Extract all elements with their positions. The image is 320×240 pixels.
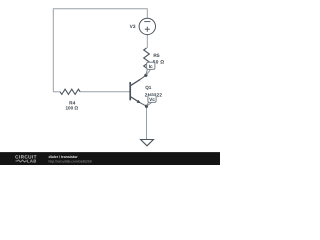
svg-text:Q1: Q1 [145,85,152,90]
svg-text:http://circuitlab.com/c6d6259: http://circuitlab.com/c6d6259 [49,159,92,163]
svg-text:dialer / transistor: dialer / transistor [49,155,79,159]
svg-text:V3: V3 [130,24,136,30]
svg-text:LAB: LAB [27,159,37,164]
svg-text:100 Ω: 100 Ω [65,106,78,111]
svg-text:Vc: Vc [149,97,155,103]
svg-text:R5: R5 [153,53,159,59]
svg-text:Ic: Ic [149,64,153,70]
